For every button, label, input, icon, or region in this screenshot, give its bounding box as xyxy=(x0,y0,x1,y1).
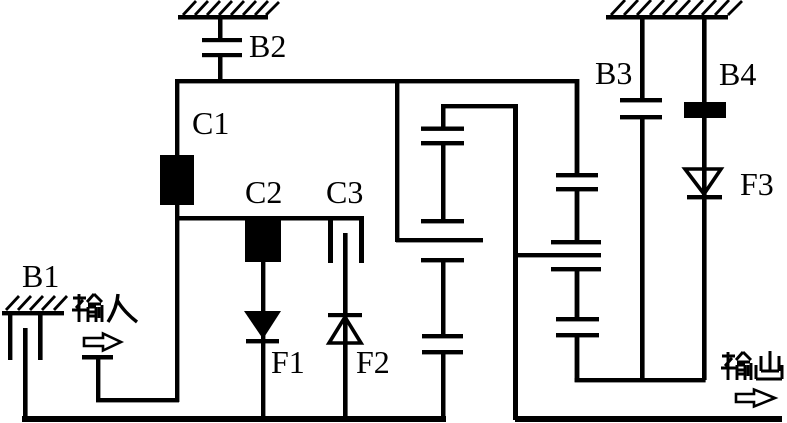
label input (Chinese: ru) xyxy=(108,294,137,322)
svg-text:F1: F1 xyxy=(271,344,305,380)
wire (B1 middle prong to rail) xyxy=(23,328,28,419)
wire (C2 stem down to rail) xyxy=(261,260,265,420)
input arrow (hollow) xyxy=(84,334,121,351)
wire (C2/C3 bar) xyxy=(175,216,364,221)
svg-text:F3: F3 xyxy=(740,166,774,202)
svg-text:C2: C2 xyxy=(245,174,282,210)
brake B4 (filled) xyxy=(684,102,726,118)
ground (B1 fixed frame, hatched) xyxy=(2,296,67,315)
clutch C3 (fork symbol) xyxy=(328,218,364,263)
svg-text:B3: B3 xyxy=(595,55,632,91)
one-way clutch F2 (open triangle with top bar) xyxy=(328,313,362,343)
svg-text:B2: B2 xyxy=(249,28,286,64)
label output (Chinese: shu) xyxy=(721,352,751,380)
svg-text:B1: B1 xyxy=(22,258,59,294)
wire (input to left shaft) xyxy=(96,398,179,402)
wire (middle long vertical shaft) xyxy=(513,104,518,420)
wire (upper middle link bar) xyxy=(441,104,518,108)
svg-text:C3: C3 xyxy=(326,174,363,210)
input flange xyxy=(82,355,113,402)
svg-text:F2: F2 xyxy=(356,344,390,380)
planetary gearset 2 (plates, right column) xyxy=(513,173,601,382)
one-way clutch F1 (filled triangle with bar) xyxy=(244,311,281,343)
wire (planet vertical from frame bar) xyxy=(395,79,399,242)
svg-text:B4: B4 xyxy=(719,56,756,92)
wire (right rail / bottom shaft right) xyxy=(515,416,782,422)
one-way clutch F3 (open triangle with bottom bar) xyxy=(685,169,722,199)
brake B3 (stem and plates) xyxy=(620,17,662,380)
wire (right vertical from frame bar) xyxy=(575,79,580,177)
ground (top-left fixed frame, hatched) xyxy=(178,1,279,20)
wire (carrier bar to output members) xyxy=(575,378,706,382)
wire (top frame bar) xyxy=(175,79,579,83)
wire (C3 middle prong down to rail) xyxy=(343,233,348,420)
output arrow (hollow) xyxy=(736,390,775,407)
brake B2 (stem and plates) xyxy=(202,17,242,82)
brake B1 (outer prongs) xyxy=(8,315,43,360)
label input (Chinese: shu) xyxy=(72,294,102,322)
ground (top-right fixed frame, hatched) xyxy=(606,0,742,20)
label output (Chinese: chu) xyxy=(756,351,782,379)
wire (B4/F3 vertical) xyxy=(702,17,707,380)
clutch C1 (filled) xyxy=(160,155,194,205)
wire (left rail / bottom shaft left) xyxy=(22,416,446,422)
wire (left vertical shaft from frame to input) xyxy=(175,79,179,402)
svg-text:C1: C1 xyxy=(192,105,229,141)
clutch C2 (filled) xyxy=(245,220,281,262)
planetary gearset 1 (sun/ring plates, left column) xyxy=(396,104,483,420)
